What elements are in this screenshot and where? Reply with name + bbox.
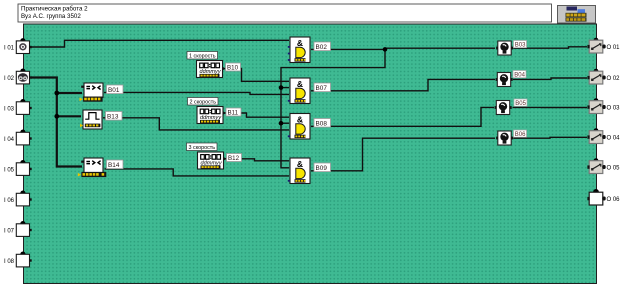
B01 parameter strip (80, 97, 103, 102)
label B10 (226, 63, 241, 72)
wire B09 out to B06 in (311, 138, 495, 171)
wire branch B02 net down-left to trunk (281, 49, 385, 167)
wire B04 out to O02 (513, 78, 587, 79)
svg-text:1 скорость: 1 скорость (189, 54, 216, 60)
label B04 (513, 71, 526, 79)
label B02 (314, 42, 331, 51)
svg-text:O 03: O 03 (607, 106, 621, 112)
and gate B08 (290, 114, 310, 140)
junction dot I02 trunk B01 (54, 91, 59, 96)
svg-text:B06: B06 (515, 132, 526, 138)
junction dot I02 trunk B13 (54, 114, 59, 119)
svg-text:B05: B05 (515, 101, 526, 107)
wire B01 out to B07 in3 (104, 92, 289, 94)
timer B12 (198, 152, 224, 169)
svg-text:B04: B04 (514, 72, 525, 78)
svg-text:O 05: O 05 (607, 166, 621, 172)
B08 unconnected pin (288, 135, 290, 137)
input I04 (16, 130, 31, 145)
caption 1 skorost (187, 52, 218, 60)
svg-text:I 07: I 07 (4, 228, 15, 234)
label B05 (514, 99, 527, 107)
B14 parameter strip (78, 172, 101, 177)
thick wire I02 trunk to B01 B13 B14 (31, 78, 82, 167)
comparator B14 (84, 158, 103, 173)
wire B02 out to B03 in (311, 48, 495, 49)
timer B11 (197, 107, 223, 124)
timer B10 (197, 61, 223, 78)
svg-text:O 04: O 04 (607, 136, 621, 142)
wire B14 out to B09 in3 (105, 169, 290, 176)
wire B13 out to B08 in3 (103, 118, 289, 130)
svg-text:I 01: I 01 (4, 45, 15, 51)
svg-text:3 скорость: 3 скорость (189, 145, 216, 151)
svg-text:I 08: I 08 (4, 259, 15, 265)
svg-text:B10: B10 (227, 65, 239, 72)
output O05 (587, 158, 605, 173)
B12 out stub (224, 157, 227, 161)
wire trunk to B07 in2 (281, 87, 289, 89)
label B09 (314, 163, 331, 172)
svg-text:B13: B13 (107, 113, 119, 120)
input I07 (16, 221, 31, 236)
lamp B05 (495, 101, 512, 115)
input I03 (16, 99, 31, 114)
header comment frame (18, 4, 552, 22)
and gate B09 (290, 158, 310, 184)
label B14 (107, 160, 124, 169)
svg-text:B03: B03 (515, 42, 526, 48)
svg-text:O 01: O 01 (607, 45, 621, 51)
svg-text:B12: B12 (228, 155, 240, 162)
wire B05 out to O03 (513, 106, 588, 108)
B10 out stub (223, 67, 226, 71)
and gate B07 (290, 78, 310, 104)
svg-text:B08: B08 (316, 120, 328, 127)
svg-text:B11: B11 (228, 110, 239, 117)
input I02 (16, 69, 31, 84)
B02 unconnected pins (288, 46, 290, 61)
wire B06 out to O04 (514, 136, 588, 139)
wire B03 out to O01 (514, 47, 588, 48)
input I06 (16, 191, 31, 206)
lamp B04 (496, 73, 513, 87)
svg-text:B01: B01 (108, 87, 120, 94)
output O06 unused (587, 189, 605, 205)
wire B12 out to B09 in1 (225, 159, 290, 161)
junction dot trunk B07 (279, 85, 284, 90)
label B06 (514, 130, 527, 138)
svg-text:2 скорость: 2 скорость (190, 100, 217, 106)
B09 unconnected pin (288, 180, 290, 182)
B07 unconnected pin (288, 100, 290, 102)
junction dot net B02 at branch (383, 47, 388, 52)
svg-text:B02: B02 (316, 44, 328, 51)
wire I01 to B02 in1 (31, 40, 289, 47)
svg-text:I 04: I 04 (4, 137, 15, 143)
label B13 (106, 112, 123, 121)
label B03 (514, 41, 527, 49)
and gate B02 (290, 37, 310, 63)
label B07 (314, 83, 331, 92)
input I08 (16, 252, 31, 267)
wire B11 out to B08 in1 (224, 113, 289, 117)
wire B08 out to B05 in (311, 107, 494, 126)
B14 pin stub (81, 161, 84, 163)
output O02 (587, 69, 605, 84)
output O03 (587, 98, 605, 113)
caption 2 skorost (188, 98, 219, 106)
svg-text:Вуз А.С. группа 3502: Вуз А.С. группа 3502 (21, 13, 81, 20)
output O01 (587, 38, 605, 53)
svg-text:Практическая работа 2: Практическая работа 2 (21, 6, 88, 13)
label B08 (314, 119, 331, 128)
label B01 (107, 85, 124, 94)
lamp B06 (496, 131, 513, 145)
svg-text:B07: B07 (316, 85, 328, 92)
svg-text:I 06: I 06 (4, 198, 15, 204)
svg-text:B09: B09 (316, 165, 328, 172)
svg-text:B14: B14 (108, 162, 120, 169)
output O04 (587, 128, 605, 143)
B11 out stub (223, 111, 226, 115)
svg-text:I 03: I 03 (4, 106, 15, 112)
B01 pin stub (81, 86, 84, 88)
svg-text:O 06: O 06 (607, 197, 621, 203)
caption 3 skorost (187, 143, 218, 151)
comparator B01 (84, 83, 103, 98)
lamp B03 (496, 41, 513, 55)
input I05 (16, 160, 31, 175)
input I01 (16, 38, 31, 53)
svg-text:O 02: O 02 (607, 76, 621, 82)
logo box top right (558, 6, 596, 24)
wire B10 out to B07 in1 (224, 69, 290, 82)
pulse relay B13 (80, 110, 102, 129)
svg-text:I 05: I 05 (4, 167, 15, 173)
junction dot trunk B08 (279, 121, 284, 126)
label B11 (226, 108, 241, 117)
svg-text:I 02: I 02 (4, 76, 15, 82)
label B12 (227, 154, 242, 163)
wire B07 out to B04 in (311, 79, 495, 90)
wire trunk to B08 in2 (281, 122, 289, 124)
